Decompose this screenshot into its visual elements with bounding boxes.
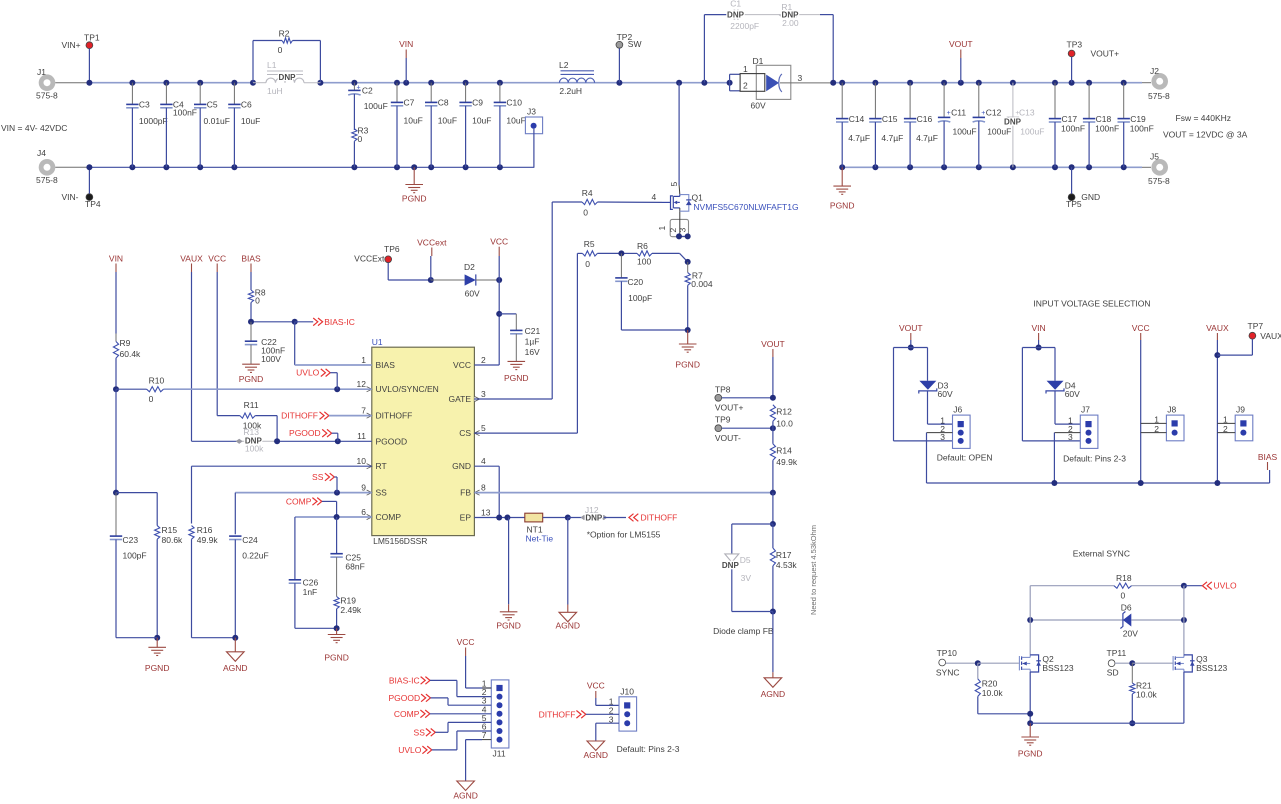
svg-text:D5: D5: [740, 555, 751, 565]
svg-text:1: 1: [657, 226, 667, 231]
svg-text:UVLO/SYNC/EN: UVLO/SYNC/EN: [376, 384, 439, 394]
svg-text:0.004: 0.004: [691, 279, 713, 289]
svg-text:11: 11: [357, 431, 366, 441]
svg-text:PGOOD: PGOOD: [376, 436, 408, 446]
svg-text:5: 5: [481, 423, 486, 433]
svg-text:J11: J11: [493, 749, 506, 759]
svg-text:AGND: AGND: [223, 663, 248, 673]
wire GATE net: [474, 398, 552, 400]
svg-text:0: 0: [1121, 590, 1126, 600]
svg-text:2: 2: [743, 81, 748, 91]
svg-text:100uF: 100uF: [953, 127, 977, 137]
svg-text:R11: R11: [244, 400, 259, 410]
svg-text:100nF: 100nF: [1095, 124, 1119, 134]
svg-text:8: 8: [481, 482, 486, 492]
svg-text:VCC: VCC: [208, 253, 226, 263]
svg-text:Diode clamp FB: Diode clamp FB: [713, 626, 774, 636]
connector J7: [1080, 415, 1098, 448]
svg-text:VIN: VIN: [399, 39, 413, 49]
op-amp U1 LM5156DSSR body: [372, 347, 475, 535]
svg-text:3V: 3V: [741, 573, 752, 583]
resistor R21: [1131, 663, 1133, 683]
svg-text:AGND: AGND: [761, 689, 786, 699]
capacitor C15: [874, 83, 876, 119]
svg-text:VAUX: VAUX: [1260, 331, 1281, 341]
svg-text:R5: R5: [584, 239, 595, 249]
svg-text:VOUT = 12VDC @ 3A: VOUT = 12VDC @ 3A: [1163, 129, 1248, 139]
svg-text:575-8: 575-8: [36, 91, 58, 101]
svg-text:DNP: DNP: [585, 513, 603, 522]
svg-text:TP3: TP3: [1067, 39, 1083, 49]
svg-text:J3: J3: [527, 107, 536, 117]
svg-text:External SYNC: External SYNC: [1073, 548, 1130, 558]
svg-text:4.53k: 4.53k: [776, 560, 798, 570]
capacitor C6: [233, 83, 235, 105]
svg-text:R4: R4: [582, 188, 593, 198]
svg-text:1: 1: [743, 64, 748, 74]
net flag BIAS-IC: [295, 321, 314, 323]
svg-text:VOUT+: VOUT+: [715, 402, 744, 412]
ground AGND (C24): [234, 638, 236, 652]
svg-text:80.6k: 80.6k: [162, 535, 184, 545]
svg-text:VOUT: VOUT: [761, 339, 785, 349]
svg-text:J5: J5: [1150, 152, 1159, 162]
svg-text:9: 9: [361, 482, 366, 492]
svg-text:C17: C17: [1062, 114, 1078, 124]
svg-text:VAUX: VAUX: [180, 253, 203, 263]
wire SS line: [235, 492, 371, 494]
svg-text:0: 0: [583, 208, 588, 218]
diode D6 (zener): [1030, 619, 1123, 621]
wire BIAS to pin 1: [294, 322, 296, 365]
svg-text:1000pF: 1000pF: [139, 116, 168, 126]
svg-text:R9: R9: [120, 338, 131, 348]
svg-text:DNP: DNP: [722, 561, 740, 570]
svg-text:3: 3: [481, 389, 486, 399]
svg-text:575-8: 575-8: [36, 175, 58, 185]
ground AGND (J11): [465, 780, 467, 782]
svg-text:VIN = 4V- 42VDC: VIN = 4V- 42VDC: [1, 123, 67, 133]
node BIAS-IC junction: [251, 321, 295, 323]
svg-text:13: 13: [481, 507, 491, 517]
capacitor C8: [430, 83, 432, 103]
svg-text:UVLO: UVLO: [296, 368, 320, 378]
svg-text:VCC: VCC: [490, 237, 508, 247]
svg-text:Net-Tie: Net-Tie: [526, 534, 554, 544]
svg-text:C11: C11: [951, 108, 966, 118]
ground PGND (EP): [508, 518, 510, 605]
svg-text:3: 3: [940, 432, 945, 442]
transistor Q2: [1018, 662, 1021, 664]
svg-text:49.9k: 49.9k: [776, 457, 798, 467]
connector J1: [39, 74, 56, 91]
resistor R18: [1030, 585, 1114, 587]
svg-text:VCC: VCC: [453, 360, 471, 370]
wire EP net: [474, 517, 524, 519]
svg-text:16V: 16V: [525, 347, 540, 357]
wire CS net: [474, 432, 577, 434]
resistor R10: [113, 386, 119, 392]
test point TP7: [1249, 332, 1256, 339]
capacitor C9: [465, 83, 467, 103]
svg-text:SS: SS: [376, 488, 388, 498]
connector J11: [491, 680, 509, 748]
svg-text:10.0k: 10.0k: [982, 688, 1004, 698]
svg-text:L1: L1: [267, 60, 277, 70]
wire J6 pin2 to bus: [927, 432, 953, 434]
svg-text:0.01uF: 0.01uF: [204, 116, 230, 126]
wire top input rail: [89, 82, 253, 84]
ground AGND (J10): [595, 740, 597, 742]
svg-text:*Option for LM5155: *Option for LM5155: [587, 529, 661, 539]
resistor R12: [770, 405, 775, 421]
svg-text:10uF: 10uF: [506, 116, 525, 126]
svg-text:C10: C10: [506, 98, 522, 108]
svg-text:R18: R18: [1116, 573, 1132, 583]
wire sync bottom rail: [1030, 722, 1184, 724]
svg-text:Fsw = 440KHz: Fsw = 440KHz: [1176, 113, 1232, 123]
svg-text:7: 7: [361, 405, 366, 415]
wire Q3 drain: [1183, 586, 1185, 655]
svg-text:J4: J4: [37, 148, 46, 158]
svg-text:VCC: VCC: [457, 637, 475, 647]
wire VCC to pin 2: [498, 280, 500, 365]
svg-text:TP11: TP11: [1107, 648, 1127, 658]
capacitor C12 (polarized): [978, 83, 980, 118]
svg-text:60V: 60V: [1065, 389, 1080, 399]
wire PGOOD line: [192, 440, 240, 442]
capacitor C17: [1054, 83, 1056, 119]
diode D2: [431, 279, 465, 281]
svg-text:COMP: COMP: [394, 709, 420, 719]
svg-text:VAUX: VAUX: [1206, 323, 1229, 333]
svg-text:VOUT: VOUT: [949, 39, 973, 49]
svg-text:DITHOFF: DITHOFF: [641, 513, 678, 523]
svg-text:VOUT-: VOUT-: [715, 433, 741, 443]
resistor R16: [189, 526, 194, 540]
ground PGND (C23/R15): [156, 638, 158, 648]
svg-text:U1: U1: [372, 337, 383, 347]
svg-text:TP9: TP9: [715, 415, 731, 425]
svg-text:TP5: TP5: [1066, 199, 1082, 209]
inductor L1 (DNP): [253, 82, 266, 84]
svg-text:4: 4: [481, 456, 486, 466]
svg-text:VIN+: VIN+: [62, 40, 81, 50]
capacitor C21: [499, 313, 516, 315]
svg-text:2: 2: [481, 355, 486, 365]
svg-text:RT: RT: [376, 461, 387, 471]
svg-text:INPUT VOLTAGE SELECTION: INPUT VOLTAGE SELECTION: [1033, 299, 1150, 309]
svg-text:100V: 100V: [261, 354, 281, 364]
svg-text:Q1: Q1: [692, 192, 704, 202]
svg-text:D2: D2: [464, 262, 475, 272]
svg-text:R2: R2: [279, 29, 290, 39]
ground AGND (FB clamp): [772, 612, 774, 673]
svg-text:L2: L2: [559, 60, 569, 70]
capacitor C5: [199, 83, 201, 105]
test point TP3: [1068, 50, 1075, 57]
svg-text:C14: C14: [849, 114, 865, 124]
svg-text:DNP: DNP: [782, 11, 800, 20]
wire J7 loop: [1022, 347, 1055, 349]
svg-text:0: 0: [255, 296, 260, 306]
svg-text:6: 6: [361, 507, 366, 517]
svg-text:3: 3: [798, 73, 803, 83]
svg-text:TP6: TP6: [384, 244, 400, 254]
svg-text:PGND: PGND: [239, 374, 264, 384]
svg-text:J10: J10: [620, 687, 634, 697]
wire bottom output rail: [842, 166, 1142, 168]
svg-text:10: 10: [357, 456, 367, 466]
svg-text:10.0k: 10.0k: [1136, 689, 1158, 699]
svg-text:R10: R10: [149, 375, 165, 385]
svg-text:C5: C5: [207, 100, 218, 110]
svg-text:UVLO: UVLO: [398, 745, 422, 755]
svg-text:VOUT: VOUT: [899, 323, 923, 333]
svg-text:4.7µF: 4.7µF: [881, 133, 903, 143]
capacitor C26: [294, 517, 296, 580]
svg-text:C2: C2: [362, 86, 373, 96]
svg-text:PGND: PGND: [496, 621, 521, 631]
svg-text:PGOOD: PGOOD: [289, 428, 321, 438]
svg-text:VCC: VCC: [1132, 323, 1150, 333]
connector J9: [1235, 415, 1253, 441]
svg-text:C9: C9: [472, 98, 483, 108]
svg-text:0: 0: [149, 394, 154, 404]
net-tie NT1: [525, 513, 543, 522]
svg-text:VOUT+: VOUT+: [1091, 49, 1120, 59]
capacitor C13 (DNP, polarized): [1012, 83, 1014, 118]
svg-text:COMP: COMP: [376, 512, 402, 522]
svg-text:10uF: 10uF: [472, 116, 491, 126]
svg-text:Default: Pins 2-3: Default: Pins 2-3: [1063, 453, 1126, 463]
svg-text:4.7µF: 4.7µF: [916, 133, 938, 143]
svg-text:J1: J1: [37, 67, 46, 77]
svg-text:1: 1: [361, 355, 366, 365]
svg-text:C24: C24: [242, 535, 258, 545]
capacitor C1 (DNP): [733, 10, 735, 20]
resistor R1 (DNP): [779, 12, 799, 17]
svg-text:TP7: TP7: [1248, 321, 1264, 331]
svg-text:SS: SS: [312, 472, 324, 482]
svg-text:575-8: 575-8: [1148, 176, 1170, 186]
ground PGND (C22): [250, 363, 252, 365]
resistor R4: [552, 201, 582, 203]
wire Q1 drain: [678, 83, 680, 185]
test point TP5: [1068, 194, 1075, 201]
svg-text:0: 0: [278, 45, 283, 55]
svg-text:PGND: PGND: [830, 201, 855, 211]
svg-text:60V: 60V: [938, 389, 953, 399]
wire VIN sense line: [115, 389, 117, 492]
svg-text:VCCExt: VCCExt: [354, 253, 385, 263]
resistor R13 (DNP): [239, 440, 277, 442]
wire bottom input rail: [89, 166, 534, 168]
svg-text:575-8: 575-8: [1148, 91, 1170, 101]
svg-text:LM5156DSSR: LM5156DSSR: [373, 536, 427, 546]
test point TP4: [86, 194, 93, 201]
capacitor C2 (polarized): [353, 83, 355, 91]
svg-text:5: 5: [669, 182, 679, 187]
svg-text:100pF: 100pF: [123, 551, 147, 561]
svg-text:VCCext: VCCext: [417, 237, 447, 247]
svg-text:C26: C26: [303, 577, 319, 587]
capacitor C20: [620, 253, 622, 278]
svg-text:BIAS: BIAS: [241, 253, 261, 263]
svg-text:C16: C16: [917, 114, 933, 124]
svg-text:VCC: VCC: [587, 681, 605, 691]
svg-text:DNP: DNP: [727, 11, 745, 20]
svg-text:R6: R6: [637, 241, 648, 251]
connector J3: [525, 117, 542, 134]
svg-text:100uF: 100uF: [364, 101, 388, 111]
svg-text:10uF: 10uF: [404, 116, 423, 126]
svg-text:100pF: 100pF: [628, 293, 652, 303]
svg-text:SS: SS: [414, 727, 426, 737]
connector J6: [953, 415, 971, 448]
svg-text:2.49k: 2.49k: [340, 605, 362, 615]
transistor Q1: [662, 201, 671, 203]
svg-text:12: 12: [357, 379, 367, 389]
svg-text:C21: C21: [525, 326, 541, 336]
svg-text:C19: C19: [1130, 114, 1146, 124]
resistor R17: [772, 524, 774, 548]
svg-text:2200pF: 2200pF: [730, 21, 759, 31]
svg-text:DNP: DNP: [279, 73, 297, 82]
Q1 pin bracket (pins 1,2,3): [670, 219, 688, 236]
wire J11 pin7 to AGND: [482, 739, 491, 741]
svg-text:68nF: 68nF: [345, 561, 364, 571]
svg-text:+: +: [357, 85, 361, 92]
svg-text:NVMFS5C670NLWFAFT1G: NVMFS5C670NLWFAFT1G: [693, 202, 798, 212]
svg-text:DITHOFF: DITHOFF: [376, 411, 413, 421]
svg-text:R12: R12: [776, 406, 792, 416]
capacitor C7: [396, 83, 398, 103]
svg-text:BIAS: BIAS: [1258, 452, 1278, 462]
resistor R8: [248, 290, 253, 303]
resistor R9: [115, 334, 117, 342]
svg-text:PGND: PGND: [675, 360, 700, 370]
connector J2: [1151, 73, 1168, 90]
svg-text:C3: C3: [139, 100, 150, 110]
svg-text:BSS123: BSS123: [1042, 663, 1073, 673]
svg-text:4: 4: [652, 192, 657, 202]
svg-text:60V: 60V: [751, 101, 766, 111]
svg-text:SW: SW: [628, 39, 642, 49]
wire top output rail: [833, 82, 1142, 84]
capacitor C16: [909, 83, 911, 119]
ground PGND (C21): [515, 360, 517, 362]
svg-text:3: 3: [678, 228, 688, 233]
svg-text:PGND: PGND: [145, 663, 170, 673]
resistor R5: [577, 252, 582, 254]
capacitor C18: [1088, 83, 1090, 119]
svg-text:C8: C8: [438, 98, 449, 108]
capacitor C10: [499, 83, 501, 103]
ground PGND (sync): [1029, 723, 1031, 737]
svg-text:J2: J2: [1150, 66, 1159, 76]
svg-text:BIAS-IC: BIAS-IC: [324, 317, 355, 327]
svg-text:100: 100: [637, 256, 651, 266]
svg-text:60V: 60V: [465, 288, 480, 298]
capacitor C25: [336, 517, 338, 554]
svg-text:49.9k: 49.9k: [197, 535, 219, 545]
svg-text:GATE: GATE: [448, 394, 471, 404]
svg-text:COMP: COMP: [286, 496, 312, 506]
svg-text:10.0: 10.0: [776, 418, 793, 428]
svg-text:J8: J8: [1167, 404, 1176, 414]
wire COMP line: [295, 516, 372, 518]
junction dots output rails: [830, 80, 836, 86]
svg-text:PGOOD: PGOOD: [388, 693, 420, 703]
svg-text:100uF: 100uF: [987, 127, 1011, 137]
wire Q2 drain: [1029, 586, 1031, 655]
svg-text:Need to request 4.53kOhm: Need to request 4.53kOhm: [809, 525, 818, 615]
diode D5 (DNP) branch: [732, 523, 773, 525]
svg-text:4.7µF: 4.7µF: [848, 133, 870, 143]
svg-text:C12: C12: [986, 108, 1002, 118]
svg-text:1uH: 1uH: [267, 86, 283, 96]
wire Q2 source: [1029, 672, 1031, 723]
svg-text:AGND: AGND: [556, 621, 581, 631]
resistor R7: [687, 262, 689, 273]
svg-text:PGND: PGND: [324, 653, 349, 663]
svg-text:TP8: TP8: [715, 384, 731, 394]
capacitor C19: [1123, 83, 1125, 119]
wire C1/R1 bypass loop: [703, 15, 705, 83]
capacitor C14: [841, 83, 843, 119]
svg-text:60.4k: 60.4k: [120, 349, 142, 359]
svg-text:GND: GND: [1081, 192, 1100, 202]
svg-text:C13: C13: [1019, 108, 1035, 118]
svg-text:2: 2: [668, 228, 678, 233]
svg-text:C1: C1: [730, 0, 741, 8]
test point TP11: [1108, 660, 1115, 667]
test point TP8: [715, 394, 722, 401]
svg-text:10uF: 10uF: [438, 116, 457, 126]
svg-text:0: 0: [358, 134, 363, 144]
svg-text:J7: J7: [1081, 404, 1090, 414]
net flag DITHOFF (J12): [629, 514, 634, 522]
junction dots input rails: [86, 80, 92, 86]
svg-text:0: 0: [585, 259, 590, 269]
wire J7 pin2 to bus: [1054, 432, 1080, 434]
svg-text:D6: D6: [1121, 603, 1132, 613]
svg-text:100uF: 100uF: [1020, 127, 1044, 137]
net flag UVLO (sync): [1184, 585, 1202, 587]
svg-text:BIAS-IC: BIAS-IC: [389, 675, 420, 685]
svg-text:Default: Pins 2-3: Default: Pins 2-3: [617, 744, 680, 754]
svg-text:UVLO: UVLO: [1214, 581, 1238, 591]
test point TP2: [616, 41, 623, 48]
svg-text:1µF: 1µF: [525, 336, 540, 346]
svg-text:VIN: VIN: [1032, 323, 1046, 333]
svg-text:R16: R16: [197, 525, 213, 535]
ground PGND (R19/C26): [336, 628, 338, 634]
inductor L2: [559, 78, 594, 83]
svg-text:VIN-: VIN-: [62, 192, 79, 202]
svg-text:VIN: VIN: [109, 253, 123, 263]
connector J5: [1151, 159, 1168, 176]
ground PGND (sense): [687, 330, 689, 344]
ground AGND (NT1): [567, 518, 569, 605]
resistor R19: [334, 597, 339, 609]
resistor R15: [156, 493, 158, 526]
capacitor C24: [229, 535, 241, 537]
svg-text:CS: CS: [459, 428, 471, 438]
svg-text:+: +: [981, 110, 985, 117]
capacitor C23: [115, 493, 117, 536]
